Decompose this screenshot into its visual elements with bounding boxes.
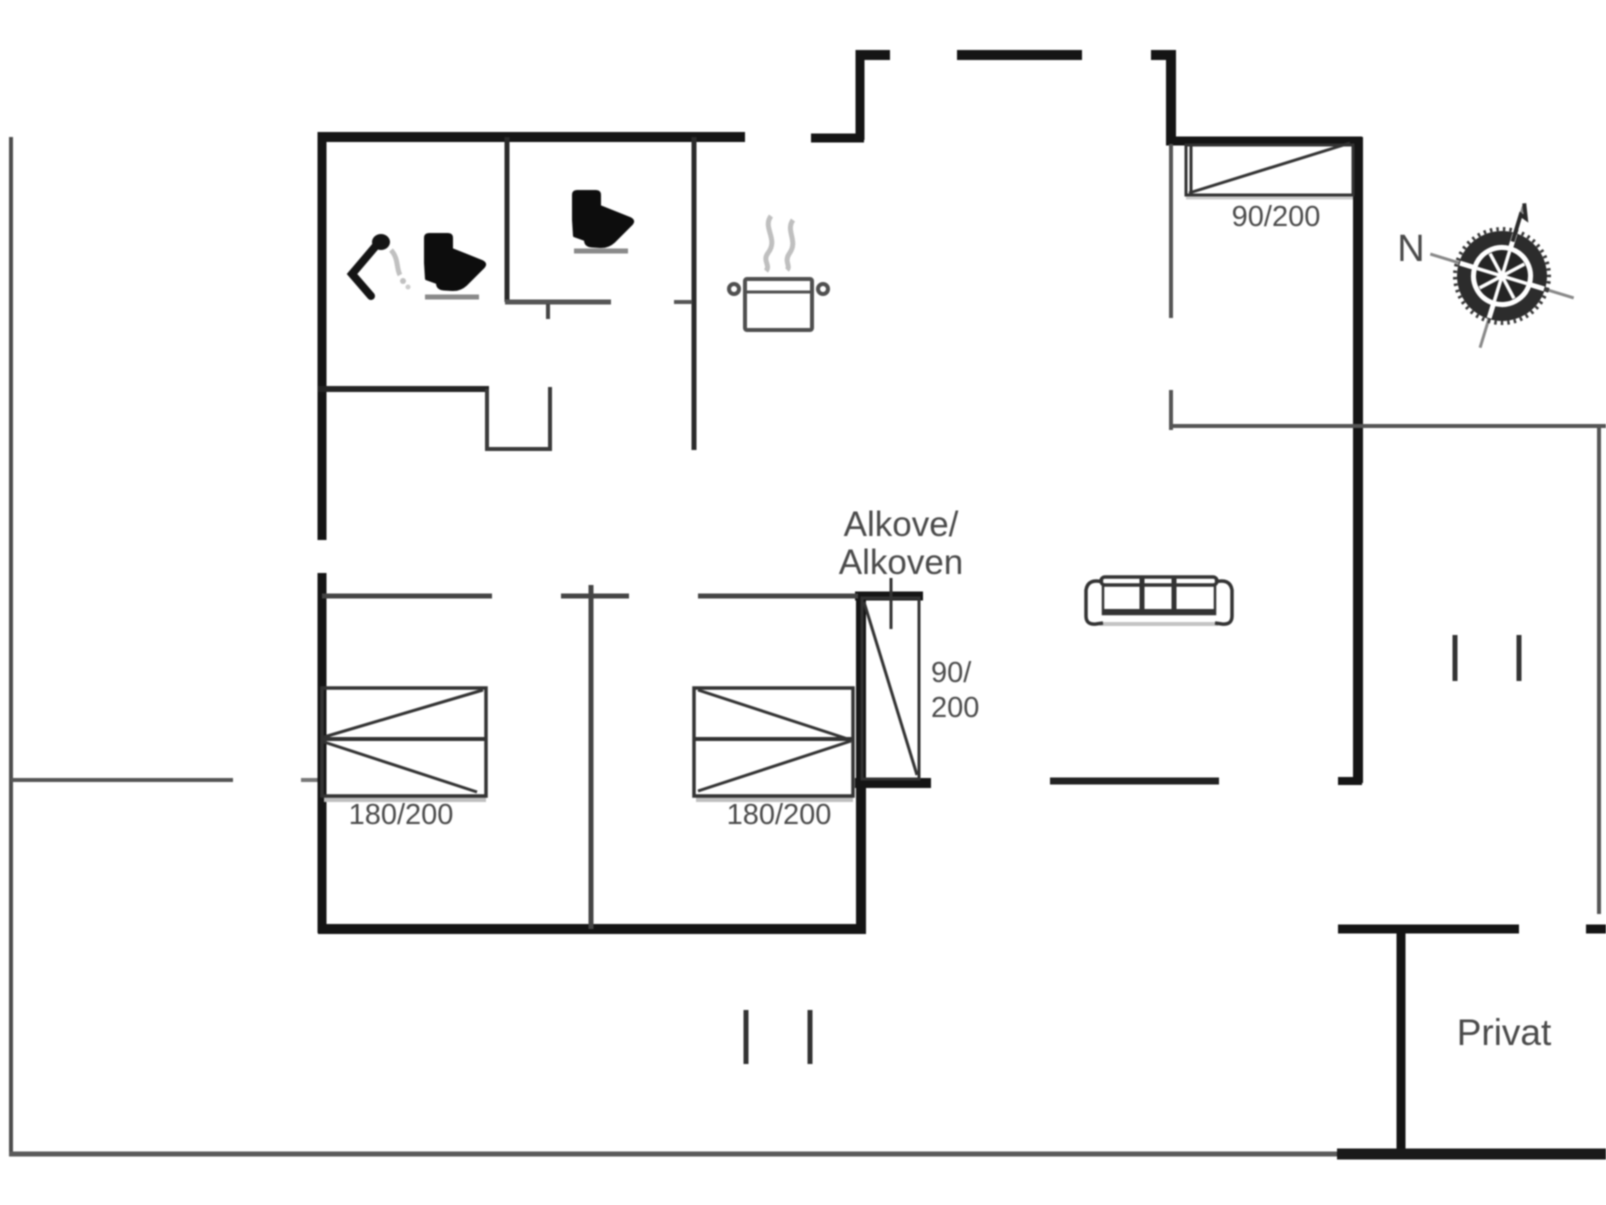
door dash east right bbox=[1517, 635, 1522, 681]
wall bedroom top a bbox=[322, 594, 492, 599]
svg-text:90/200: 90/200 bbox=[1232, 201, 1321, 233]
wire east boundary vertical bbox=[1597, 428, 1601, 914]
svg-text:180/200: 180/200 bbox=[727, 799, 832, 831]
svg-text:Alkoven: Alkoven bbox=[839, 543, 964, 582]
wall top-right room west lower bbox=[1169, 390, 1173, 430]
steam squiggles bbox=[766, 216, 793, 271]
wall kitchen step horizontal bbox=[811, 134, 864, 143]
wall privat north bbox=[1338, 925, 1519, 934]
wall shower recess bottom bbox=[487, 447, 550, 451]
wire west terrace line bbox=[11, 778, 233, 782]
svg-text:90/: 90/ bbox=[931, 657, 972, 689]
wall shower recess top bbox=[318, 386, 489, 392]
wire outer west boundary line bbox=[9, 137, 13, 1156]
door dash bottom middle left bbox=[744, 1010, 749, 1064]
bed left 180/200 bbox=[322, 688, 486, 799]
wall bathroom north bbox=[318, 132, 745, 142]
door dash east left bbox=[1453, 635, 1458, 681]
wall kitchen west thin bbox=[692, 137, 697, 450]
wall bedroom partition bbox=[589, 585, 594, 929]
wall privat north stub bbox=[1586, 925, 1606, 934]
pointer line alkoven bbox=[890, 578, 893, 629]
wall alcove top bar bbox=[855, 592, 923, 601]
toilet 1 base line bbox=[425, 295, 479, 300]
wire terrace dash at bedroom wall bbox=[301, 778, 319, 782]
wall northeast corner vertical bbox=[1166, 50, 1176, 142]
wall east main vertical bbox=[1353, 137, 1363, 783]
shower head arm bbox=[352, 241, 380, 296]
wall north right stub bbox=[1151, 50, 1176, 60]
svg-text:Alkove/: Alkove/ bbox=[844, 505, 959, 544]
bed middle 180/200 bbox=[694, 688, 853, 799]
wall top-right room north bbox=[1166, 137, 1362, 146]
wall top-right room west upper bbox=[1169, 144, 1173, 318]
wire outer south boundary line bbox=[9, 1152, 1350, 1157]
wall bedroom east bbox=[856, 594, 866, 933]
svg-text:N: N bbox=[1397, 228, 1424, 270]
shower head bbox=[372, 234, 390, 250]
wall shower recess left bbox=[485, 389, 489, 451]
bed alcove bbox=[862, 598, 919, 779]
door tick below partition bbox=[546, 304, 550, 319]
wall privat west bbox=[1397, 925, 1406, 1152]
wall bathroom west bbox=[318, 132, 327, 540]
wall north middle segment bbox=[957, 50, 1082, 60]
wall toilet partition horizontal bbox=[505, 300, 611, 305]
wire long horizontal line east bbox=[1169, 424, 1606, 428]
svg-text:200: 200 bbox=[931, 692, 979, 724]
compass rose bbox=[1408, 181, 1596, 369]
wall bedroom south bbox=[318, 924, 866, 934]
sofa bbox=[1086, 577, 1232, 624]
wall bedroom west bbox=[318, 573, 327, 933]
wall bedroom top c bbox=[698, 594, 858, 599]
svg-text:Privat: Privat bbox=[1457, 1012, 1552, 1053]
wall shower recess right bbox=[548, 387, 552, 451]
toilet 1 bbox=[425, 234, 485, 290]
wall east foot stub bbox=[1338, 777, 1362, 785]
door tick on kitchen wall bbox=[674, 300, 692, 304]
wall living room segment bbox=[1050, 778, 1219, 785]
wall alcove bottom bar bbox=[855, 778, 931, 788]
door dash bottom middle right bbox=[808, 1010, 813, 1064]
wall kitchen step vertical bbox=[856, 50, 865, 140]
stove pot bbox=[729, 279, 828, 330]
shower spray bbox=[391, 250, 411, 290]
wall kitchen step top stub bbox=[856, 50, 890, 60]
bed top-right 90/200 bbox=[1186, 143, 1353, 198]
wall bedroom top b bbox=[561, 594, 629, 599]
toilet 2 base line bbox=[574, 249, 628, 254]
wall toilet partition vertical bbox=[505, 137, 510, 302]
wall southeast thick bbox=[1337, 1149, 1606, 1160]
toilet 2 bbox=[573, 191, 633, 247]
svg-text:180/200: 180/200 bbox=[349, 799, 454, 831]
